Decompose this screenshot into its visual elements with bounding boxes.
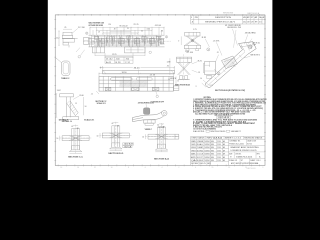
svg-text:.62: .62: [157, 124, 159, 126]
svg-text:R.25: R.25: [198, 61, 202, 63]
svg-text:12: 12: [94, 167, 96, 169]
svg-text:2X R.12: 2X R.12: [158, 127, 165, 129]
svg-text:USED ON: USED ON: [200, 163, 206, 165]
svg-text:ENG: ENG: [211, 157, 214, 159]
svg-text:4X R.06: 4X R.06: [155, 25, 161, 27]
svg-text:.19: .19: [98, 31, 100, 33]
svg-text:2X .190: 2X .190: [78, 27, 85, 29]
svg-text:REVISED PER ECO 4471: REVISED PER ECO 4471: [205, 22, 235, 24]
svg-text:36.00: 36.00: [134, 67, 140, 69]
svg-text:.25: .25: [75, 103, 77, 105]
svg-text:ENG: ENG: [211, 144, 214, 146]
svg-text:81755: 81755: [247, 143, 252, 145]
svg-text:5/94: 5/94: [217, 160, 221, 162]
svg-text:2X: 2X: [127, 28, 129, 30]
svg-text:5/3/94: 5/3/94: [204, 150, 210, 152]
svg-text:B 28: B 28: [116, 62, 121, 64]
svg-text:5/94: 5/94: [217, 141, 221, 143]
svg-text:VIEW C: VIEW C: [145, 129, 153, 131]
svg-text:5/3/94: 5/3/94: [204, 144, 210, 146]
svg-text:SECTION F-F: SECTION F-F: [95, 101, 106, 103]
svg-text:5/94: 5/94: [217, 150, 221, 152]
svg-text:.75: .75: [177, 81, 179, 83]
svg-text:SHEET 1 OF 4: SHEET 1 OF 4: [250, 160, 260, 162]
svg-text:DESCRIPTION: DESCRIPTION: [215, 17, 232, 19]
svg-text:.12: .12: [91, 94, 93, 96]
svg-text:SCALE 2/1: SCALE 2/1: [84, 119, 94, 122]
svg-text:1.12: 1.12: [56, 38, 60, 40]
svg-text:STRESS: STRESS: [191, 150, 196, 152]
svg-text:4: 4: [162, 167, 163, 169]
svg-text:1.62: 1.62: [57, 90, 61, 92]
svg-text:W.SCOTT: W.SCOTT: [197, 157, 203, 159]
svg-text:15: 15: [211, 167, 213, 169]
svg-text:16: 16: [60, 167, 62, 169]
svg-text:DWG NO.: DWG NO.: [235, 153, 242, 155]
svg-text:.50: .50: [200, 78, 202, 80]
svg-text:4/12: 4/12: [243, 22, 246, 24]
svg-text:ENG: ENG: [211, 154, 214, 156]
svg-text:0: 0: [195, 167, 196, 169]
svg-text:ENG: ENG: [211, 150, 214, 152]
svg-text:SEE SHEET 2: SEE SHEET 2: [231, 131, 241, 133]
svg-text:SHEET 1 2 3 4: SHEET 1 2 3 4: [225, 138, 241, 140]
svg-text:2X R.50: 2X R.50: [253, 43, 260, 45]
svg-text:SECTION A-A: SECTION A-A: [154, 157, 170, 160]
svg-text:.75: .75: [195, 86, 197, 88]
svg-text:S: S: [191, 17, 192, 19]
svg-text:16B5714-501: 16B5714-501: [247, 168, 256, 170]
svg-text:REV: REV: [257, 153, 260, 155]
svg-text:7: 7: [208, 49, 209, 51]
svg-text:5/9: 5/9: [251, 22, 254, 24]
svg-text:9: 9: [262, 167, 263, 169]
svg-text:.19: .19: [198, 72, 200, 74]
svg-text:6/1: 6/1: [259, 22, 261, 24]
svg-text:.38: .38: [161, 31, 163, 33]
svg-text:CHECK: CHECK: [191, 144, 196, 146]
svg-text:2: 2: [218, 73, 219, 75]
svg-text:TYP: TYP: [253, 45, 256, 47]
svg-text:.50: .50: [84, 106, 86, 108]
svg-text:DETAIL H: DETAIL H: [59, 119, 69, 122]
svg-text:SECTION C-C: SECTION C-C: [68, 157, 84, 159]
svg-text:DESIGN: DESIGN: [191, 147, 196, 149]
svg-text:J.WEBB: J.WEBB: [197, 141, 203, 143]
svg-text:5/3/94: 5/3/94: [204, 157, 210, 159]
svg-text:2X .164: 2X .164: [186, 52, 193, 54]
svg-text:6: 6: [145, 167, 146, 169]
svg-text:1.88: 1.88: [167, 61, 171, 63]
svg-text:5/94: 5/94: [217, 157, 221, 159]
svg-text:4X .190-32 UNJF-3B: 4X .190-32 UNJF-3B: [225, 25, 241, 27]
svg-text:R.06: R.06: [80, 95, 84, 97]
svg-text:8X .190-32: 8X .190-32: [120, 26, 128, 28]
svg-text:ZN: ZN: [195, 17, 198, 19]
svg-text:ENG: ENG: [211, 147, 214, 149]
svg-text:8: 8: [128, 167, 129, 169]
svg-text:5/3/94: 5/3/94: [204, 160, 210, 162]
svg-text:5/3/94: 5/3/94: [204, 154, 210, 156]
svg-text:12.25: 12.25: [112, 54, 117, 56]
svg-text:VIEW E: VIEW E: [170, 78, 176, 80]
svg-text:2: 2: [178, 167, 179, 169]
svg-text:.38: .38: [114, 28, 116, 30]
svg-text:D.COLE: D.COLE: [197, 154, 203, 156]
svg-text:.380 MIN FULL THD: .380 MIN FULL THD: [227, 27, 242, 29]
svg-text:B.KING: B.KING: [197, 150, 203, 152]
svg-text:.500: .500: [116, 58, 120, 60]
svg-text:SIZE: SIZE: [229, 153, 232, 155]
svg-text:C 12: C 12: [125, 62, 130, 64]
svg-text:M.REED: M.REED: [197, 160, 203, 162]
svg-text:.750: .750: [125, 58, 129, 60]
svg-text:SECTION B-B (ROTATED 90 CW): SECTION B-B (ROTATED 90 CW): [215, 89, 245, 92]
svg-text:REVISIONS: REVISIONS: [223, 13, 233, 15]
svg-text:.62: .62: [111, 123, 113, 125]
svg-text:.62: .62: [71, 126, 73, 128]
svg-text:5/94: 5/94: [217, 144, 221, 146]
svg-text:FLAG NOTES:: FLAG NOTES:: [193, 130, 205, 133]
svg-text:1.75: 1.75: [193, 29, 197, 31]
svg-text:RH: RH: [255, 22, 257, 24]
svg-text:10: 10: [111, 167, 113, 169]
svg-text:.62: .62: [141, 30, 143, 32]
svg-text:.50: .50: [142, 137, 144, 139]
svg-text:.50: .50: [56, 138, 58, 140]
svg-text:.25: .25: [64, 27, 66, 29]
svg-text:SECTION E-E: SECTION E-E: [175, 85, 191, 87]
svg-text:R.38: R.38: [202, 37, 206, 39]
svg-text:SECTION D-D: SECTION D-D: [108, 153, 124, 155]
svg-text:5/3/94: 5/3/94: [204, 141, 210, 143]
svg-text:TABLE 2: TABLE 2: [61, 77, 69, 80]
svg-text:.500: .500: [146, 29, 150, 31]
svg-text:18.50: 18.50: [122, 72, 127, 74]
svg-text:SEE NOTE 5: SEE NOTE 5: [250, 55, 260, 57]
svg-text:F33657-90-C-0001: F33657-90-C-0001: [229, 143, 244, 145]
svg-text:5/94: 5/94: [217, 154, 221, 156]
svg-text:.50: .50: [96, 135, 98, 137]
svg-text:.750: .750: [108, 24, 111, 26]
svg-text:2X .312: 2X .312: [106, 58, 113, 60]
svg-text:.94: .94: [167, 65, 169, 67]
svg-text:2X .25: 2X .25: [134, 24, 139, 26]
svg-text:14: 14: [77, 167, 79, 169]
svg-text:.38: .38: [117, 126, 119, 128]
svg-text:ENG: ENG: [211, 160, 214, 162]
svg-text:.25 STK: .25 STK: [213, 40, 220, 42]
svg-text:.31: .31: [217, 52, 219, 54]
svg-text:.38: .38: [76, 128, 78, 130]
svg-text:WT: WT: [241, 160, 243, 162]
svg-text:3: 3: [86, 33, 87, 35]
svg-text:LEFT HAND SIDE SHOWN: LEFT HAND SIDE SHOWN: [89, 24, 104, 27]
svg-text:5/94: 5/94: [217, 147, 221, 149]
svg-text:DT: DT: [251, 17, 254, 19]
svg-text:2X .38: 2X .38: [150, 75, 155, 77]
svg-text:ENG: ENG: [211, 141, 214, 143]
svg-text:16B5714-501: 16B5714-501: [236, 156, 252, 158]
svg-text:5/3/94: 5/3/94: [204, 147, 210, 149]
svg-text:13: 13: [228, 167, 230, 169]
